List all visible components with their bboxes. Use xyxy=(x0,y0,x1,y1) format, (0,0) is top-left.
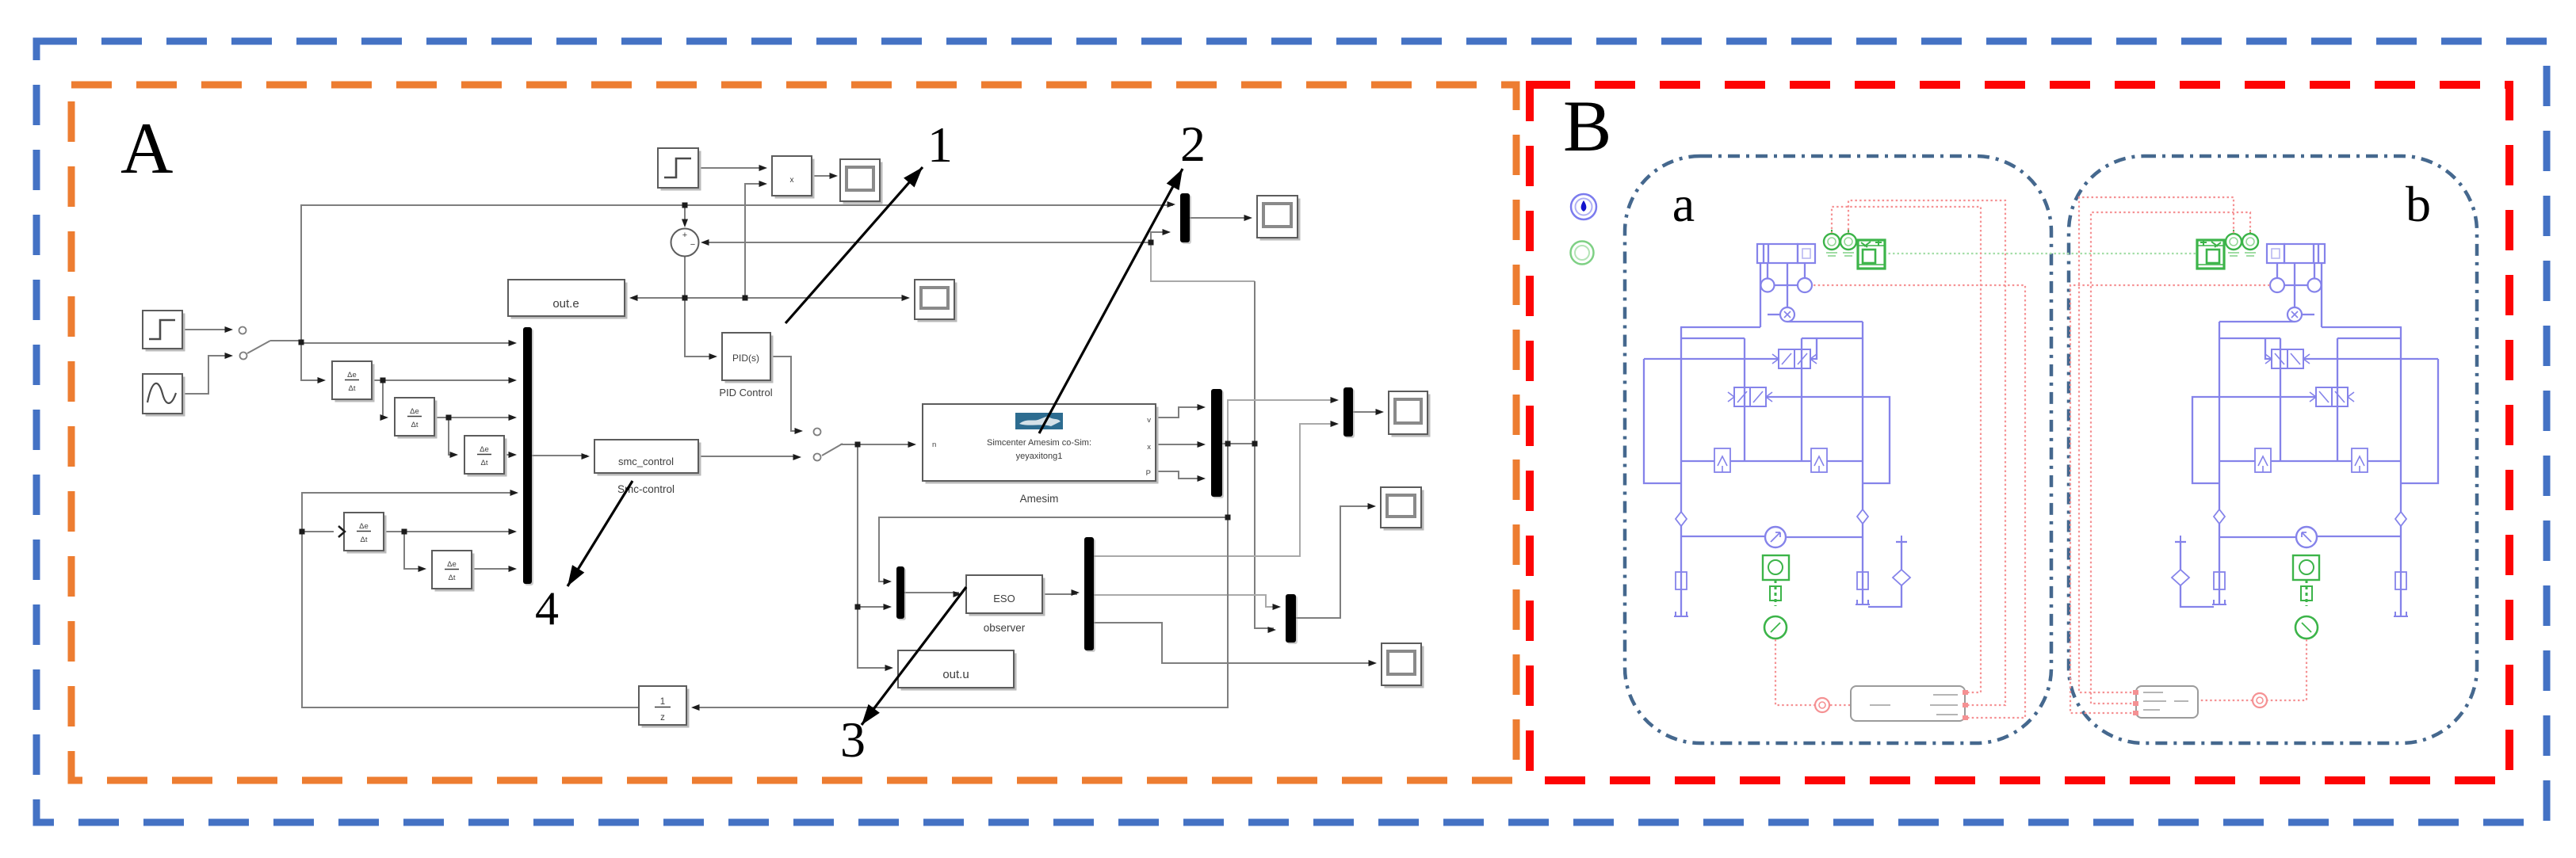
svg-text:Δt: Δt xyxy=(411,421,419,429)
svg-text:Δt: Δt xyxy=(349,384,356,393)
svg-text:Δe: Δe xyxy=(359,522,369,531)
svg-text:1: 1 xyxy=(927,116,953,173)
svg-text:Simcenter Amesim co-Sim:: Simcenter Amesim co-Sim: xyxy=(987,438,1091,448)
svg-text:4: 4 xyxy=(535,582,559,635)
svg-text:A: A xyxy=(120,108,173,189)
svg-text:a: a xyxy=(1672,176,1695,232)
svg-text:P: P xyxy=(1146,469,1151,478)
svg-text:smc_control: smc_control xyxy=(618,456,674,467)
svg-text:3: 3 xyxy=(840,711,866,768)
svg-text:Δe: Δe xyxy=(447,560,457,569)
svg-text:Amesim: Amesim xyxy=(1020,493,1059,505)
svg-text:PID(s): PID(s) xyxy=(732,353,759,364)
svg-text:Δt: Δt xyxy=(481,459,488,467)
svg-text:x: x xyxy=(790,176,794,185)
svg-text:1: 1 xyxy=(660,697,665,707)
svg-text:−: − xyxy=(690,240,695,250)
svg-text:Δe: Δe xyxy=(347,371,357,379)
svg-text:yeyaxitong1: yeyaxitong1 xyxy=(1016,452,1063,461)
svg-text:B: B xyxy=(1563,86,1611,166)
svg-text:v: v xyxy=(1147,416,1151,425)
svg-text:Δe: Δe xyxy=(480,445,489,454)
svg-text:Δt: Δt xyxy=(449,574,456,582)
svg-text:out.e: out.e xyxy=(552,297,579,311)
svg-text:Δt: Δt xyxy=(361,536,368,544)
svg-text:n: n xyxy=(932,440,936,449)
svg-text:b: b xyxy=(2406,176,2431,232)
svg-text:Δe: Δe xyxy=(410,407,419,416)
svg-text:out.u: out.u xyxy=(942,668,969,681)
svg-text:2: 2 xyxy=(1180,116,1206,172)
svg-text:observer: observer xyxy=(984,622,1026,634)
svg-text:x: x xyxy=(1147,443,1151,452)
svg-text:+: + xyxy=(682,231,687,240)
svg-text:z: z xyxy=(660,713,665,723)
svg-text:ESO: ESO xyxy=(993,593,1015,604)
svg-text:PID Control: PID Control xyxy=(719,387,772,398)
